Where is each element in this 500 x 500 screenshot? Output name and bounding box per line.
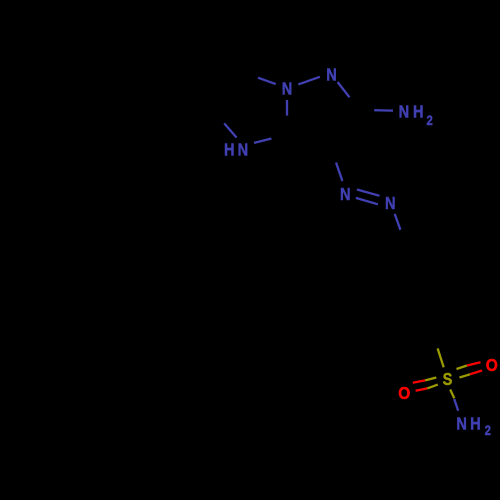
- wire S=O left line 2 O-half: [416, 388, 428, 390]
- svg-text:N: N: [385, 193, 396, 213]
- wire C3-N1azo (blue half): [336, 163, 342, 182]
- svg-text:H: H: [224, 140, 235, 160]
- wire S=O right line 1 S-half: [457, 366, 468, 370]
- svg-text:N: N: [282, 79, 293, 99]
- svg-text:H: H: [470, 414, 481, 434]
- svg-text:N: N: [326, 65, 337, 85]
- svg-text:N: N: [238, 140, 249, 160]
- svg-text:N: N: [456, 414, 467, 434]
- wire N2-C1ring (blue half): [395, 214, 401, 230]
- wire S-NH2 olive half: [450, 390, 454, 399]
- wire N4-C7a (blue half): [286, 100, 288, 116]
- svg-text:N: N: [399, 102, 410, 122]
- wire C6-N7 (blue half): [224, 123, 236, 137]
- wire N7-C7a (blue half): [254, 139, 271, 143]
- wire C4ring-S (olive half): [438, 348, 444, 367]
- wire S-NH2 blue half: [454, 399, 458, 411]
- svg-text:H: H: [413, 102, 424, 122]
- svg-text:O: O: [398, 383, 410, 403]
- svg-text:S: S: [443, 370, 453, 390]
- wire N3-C2 (blue half): [338, 82, 350, 97]
- wire N1=N2 azo double bond line 1: [357, 190, 380, 196]
- wire S=O right line 2 O-half: [470, 371, 482, 375]
- wire S=O right line 2 S-half: [460, 374, 471, 377]
- svg-text:2: 2: [426, 112, 432, 128]
- svg-text:2: 2: [485, 422, 491, 438]
- wire S=O left line 2 S-half: [427, 385, 438, 389]
- wire S=O left line 1 O-half: [413, 380, 425, 382]
- wire S=O left line 1 S-half: [425, 378, 436, 381]
- wire N1=N2 azo double bond line 2: [356, 198, 378, 204]
- svg-text:O: O: [486, 355, 498, 375]
- svg-text:N: N: [340, 185, 351, 205]
- wire N4-N3: [298, 77, 320, 85]
- wire C5-N4 (blue half): [258, 78, 276, 84]
- wire S=O right line 1 O-half: [467, 362, 481, 365]
- wire C2-NH2 (blue half): [374, 109, 393, 112]
